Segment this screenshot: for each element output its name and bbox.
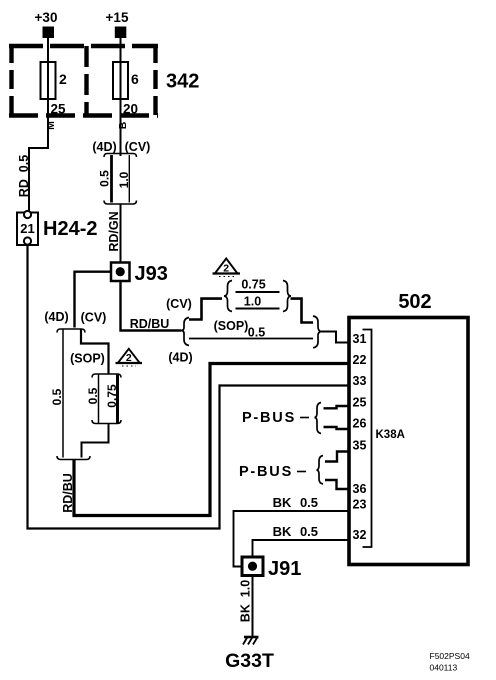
- svg-text:33: 33: [353, 374, 367, 388]
- option wire 0.75 (thick): [116, 374, 119, 424]
- variant wire 0.5 (thick): [110, 155, 113, 203]
- svg-text:(CV): (CV): [81, 311, 107, 325]
- wire into pin 31: [322, 332, 350, 343]
- sop options split bracket: [92, 374, 121, 378]
- svg-text:2: 2: [223, 263, 229, 275]
- wire J91 to ground: [252, 576, 254, 638]
- size options open brace: [224, 281, 232, 312]
- svg-text:20: 20: [123, 102, 138, 117]
- svg-text:BK 1.0: BK 1.0: [239, 580, 253, 622]
- stub to pin 35: [325, 452, 349, 462]
- wire 4D option 0.5 (thin): [62, 329, 64, 458]
- wire fuse6 down: [120, 99, 122, 156]
- left variant merge bracket: [57, 456, 90, 460]
- svg-text:36: 36: [353, 482, 367, 496]
- stub to pin 25: [324, 406, 350, 408]
- svg-text:25: 25: [353, 396, 367, 410]
- svg-text:BK: BK: [273, 495, 292, 510]
- svg-text:2: 2: [59, 71, 67, 87]
- svg-text:(CV): (CV): [125, 140, 151, 154]
- junction J93: [111, 263, 130, 282]
- fuse box 342 dashed enclosure: [9, 44, 158, 118]
- svg-text:35: 35: [353, 439, 367, 453]
- svg-text:21: 21: [20, 221, 34, 236]
- fuse 2: [41, 47, 68, 99]
- svg-text:0.75: 0.75: [105, 384, 119, 408]
- svg-text:F502PS04: F502PS04: [430, 651, 470, 661]
- svg-text:(SOP): (SOP): [214, 319, 249, 333]
- svg-text:0.5: 0.5: [98, 170, 112, 187]
- svg-text:RD 0.5: RD 0.5: [17, 155, 31, 197]
- svg-text:0.75: 0.75: [241, 278, 265, 292]
- fuse 6: [113, 47, 139, 99]
- svg-text:0.5: 0.5: [300, 495, 318, 510]
- svg-text:26: 26: [353, 417, 367, 431]
- svg-text:(SOP): (SOP): [70, 352, 105, 366]
- svg-text:RD/BU: RD/BU: [130, 317, 170, 331]
- svg-text:B: B: [117, 121, 129, 129]
- P-BUS dash 2: [297, 471, 306, 473]
- svg-text:+30: +30: [35, 10, 58, 25]
- wire fuse2 to H24-2 (jog): [29, 99, 48, 211]
- ground symbol: [243, 637, 259, 645]
- control unit 502 box: [349, 318, 468, 565]
- svg-text:25: 25: [51, 102, 67, 117]
- svg-text:0.5: 0.5: [50, 388, 64, 405]
- supply +15 terminal: [106, 10, 129, 47]
- wire RD/BU to pin 22: [74, 364, 349, 516]
- P-BUS brace 2: [317, 456, 324, 485]
- wire BK to pin 23: [234, 511, 350, 567]
- note triangle 2: [213, 259, 241, 277]
- junction J91: [242, 557, 263, 576]
- wire CV option step: [81, 329, 109, 374]
- wire SOP 0.5: [189, 338, 313, 340]
- wire CV step up: [189, 299, 222, 320]
- wire RD to pin 33: [28, 245, 350, 529]
- svg-text:BK: BK: [273, 524, 292, 539]
- sop options merge bracket: [92, 420, 121, 424]
- svg-text:(4D): (4D): [92, 140, 116, 154]
- svg-text:2: 2: [126, 352, 132, 364]
- variant split brace (right of J93): [181, 318, 189, 346]
- svg-text:0.5: 0.5: [300, 524, 318, 539]
- supply +30 terminal: [35, 10, 58, 47]
- svg-text:0.5: 0.5: [248, 326, 265, 340]
- P-BUS brace 1: [315, 403, 322, 434]
- svg-text:6: 6: [131, 71, 139, 87]
- note triangle 2 (left): [116, 349, 143, 366]
- svg-text:1.0: 1.0: [117, 171, 131, 188]
- stub to pin 26: [324, 427, 350, 429]
- stub to pin 36: [325, 480, 349, 489]
- svg-text:31: 31: [353, 332, 367, 346]
- svg-text:RD/GN: RD/GN: [107, 211, 121, 251]
- option wire 1.0: [236, 308, 280, 310]
- svg-text:J91: J91: [268, 558, 301, 580]
- option wire 0.5 (thin): [98, 374, 100, 424]
- svg-text:342: 342: [166, 71, 199, 93]
- svg-text:22: 22: [353, 353, 367, 367]
- wire to J93: [120, 204, 122, 263]
- K38A bracket: [363, 330, 372, 548]
- left variant split bracket: [57, 329, 85, 333]
- wire sop merge step: [82, 424, 109, 458]
- wire BK to pin 32: [253, 540, 350, 557]
- svg-text:J93: J93: [135, 263, 168, 285]
- variant split bracket: [104, 154, 137, 158]
- svg-text:040113: 040113: [430, 663, 458, 673]
- svg-text:(4D): (4D): [168, 351, 192, 365]
- variant merge bracket: [104, 201, 137, 205]
- svg-text:23: 23: [353, 498, 367, 512]
- wire CV step down to merge: [291, 299, 314, 323]
- connector H24-2: [17, 211, 38, 245]
- option wire 0.75: [236, 291, 280, 293]
- size options close brace: [283, 281, 291, 312]
- svg-text:P-BUS: P-BUS: [242, 410, 296, 426]
- svg-text:(CV): (CV): [166, 297, 192, 311]
- svg-text:K38A: K38A: [376, 429, 405, 441]
- P-BUS dash 1: [300, 417, 309, 419]
- svg-text:+15: +15: [106, 10, 129, 25]
- svg-text:(4D): (4D): [44, 310, 68, 324]
- svg-text:32: 32: [353, 528, 367, 542]
- svg-text:0.5: 0.5: [86, 387, 100, 404]
- wire J93 down to RD/BU: [121, 281, 182, 331]
- svg-text:M: M: [45, 121, 57, 130]
- svg-text:1.0: 1.0: [244, 295, 261, 309]
- variant merge brace to pin 31: [313, 316, 322, 348]
- wire J93 left branch: [75, 272, 112, 328]
- svg-text:G33T: G33T: [225, 650, 274, 672]
- svg-text:P-BUS: P-BUS: [239, 464, 293, 480]
- svg-text:502: 502: [398, 291, 431, 313]
- svg-text:H24-2: H24-2: [43, 218, 97, 240]
- svg-text:RD/BU: RD/BU: [61, 473, 75, 513]
- variant wire 1.0 (thin): [128, 155, 130, 203]
